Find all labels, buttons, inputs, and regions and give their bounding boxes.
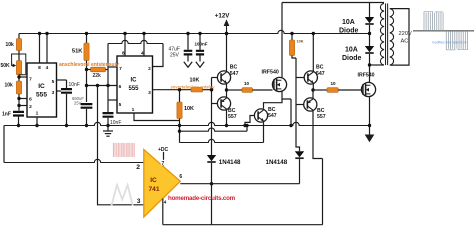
svg-text:BC: BC (268, 107, 276, 113)
svg-text:10A: 10A (342, 19, 355, 26)
svg-text:1N4148: 1N4148 (266, 159, 288, 166)
svg-text:IC: IC (131, 78, 138, 84)
svg-text:10: 10 (331, 81, 337, 86)
svg-text:10K: 10K (184, 106, 194, 112)
svg-text:50K: 50K (1, 63, 11, 69)
svg-text:8: 8 (38, 65, 41, 71)
svg-text:741: 741 (148, 186, 159, 193)
svg-text:10k: 10k (6, 42, 15, 48)
svg-text:AC: AC (401, 38, 409, 44)
svg-text:10K: 10K (297, 40, 304, 44)
svg-text:+DC: +DC (158, 147, 169, 153)
svg-text:sovorteleskop antelev: sovorteleskop antelev (171, 85, 216, 90)
svg-text:547: 547 (316, 71, 325, 77)
svg-text:6: 6 (29, 97, 32, 103)
svg-text:6: 6 (179, 174, 182, 180)
svg-text:+12V: +12V (215, 13, 230, 20)
svg-text:220V: 220V (399, 31, 412, 37)
svg-text:10K: 10K (190, 78, 200, 84)
svg-text:7: 7 (119, 66, 122, 72)
svg-text:3: 3 (52, 90, 55, 96)
svg-text:5: 5 (119, 102, 122, 108)
svg-text:3: 3 (137, 198, 141, 205)
svg-text:7: 7 (29, 77, 32, 83)
svg-text:Diode: Diode (342, 55, 362, 62)
svg-text:10k: 10k (5, 82, 14, 88)
svg-text:Diode: Diode (339, 27, 359, 34)
svg-text:22k: 22k (93, 73, 102, 79)
svg-text:25V: 25V (74, 101, 82, 106)
svg-text:IRF540: IRF540 (262, 69, 279, 75)
svg-text:homemade-circuits.com: homemade-circuits.com (168, 195, 236, 202)
svg-text:547: 547 (268, 113, 277, 119)
svg-text:100nF: 100nF (195, 42, 208, 47)
svg-text:IC: IC (38, 83, 45, 90)
svg-text:1: 1 (36, 111, 39, 117)
svg-text:547: 547 (230, 71, 239, 77)
svg-text:7: 7 (162, 161, 165, 167)
svg-text:5: 5 (52, 79, 55, 85)
svg-text:555: 555 (36, 92, 47, 99)
svg-text:2: 2 (148, 66, 151, 72)
svg-text:BC: BC (316, 65, 324, 71)
svg-text:4: 4 (164, 199, 167, 204)
svg-text:10: 10 (244, 81, 250, 86)
svg-text:557: 557 (317, 114, 326, 120)
svg-text:555: 555 (128, 86, 139, 92)
svg-text:anschlevoral entstensuiy: anschlevoral entstensuiy (59, 62, 119, 68)
svg-text:1nF: 1nF (2, 112, 11, 118)
svg-text:1N4148: 1N4148 (219, 159, 241, 166)
svg-text:10nF: 10nF (69, 82, 80, 88)
svg-text:10A: 10A (345, 47, 358, 54)
svg-text:BC: BC (230, 65, 238, 71)
svg-text:2: 2 (136, 164, 140, 171)
svg-text:25V: 25V (170, 52, 180, 58)
svg-text:51K: 51K (72, 49, 83, 55)
svg-text:IRF540: IRF540 (358, 73, 375, 79)
svg-text:6: 6 (119, 84, 122, 90)
svg-text:2: 2 (29, 104, 32, 110)
svg-text:4: 4 (46, 65, 49, 71)
svg-text:1: 1 (132, 107, 135, 113)
svg-text:3: 3 (148, 90, 151, 96)
svg-text:557: 557 (228, 114, 237, 120)
svg-text:IC: IC (150, 177, 157, 184)
svg-text:modified sine waveform: modified sine waveform (432, 40, 467, 44)
